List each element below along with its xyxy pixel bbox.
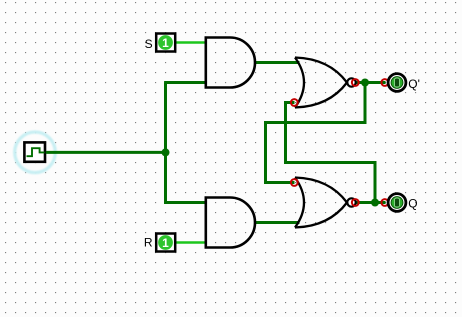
wire R pin to AND2 lower input (value 1) [176,241,207,243]
error marker NOR1 lower input [291,99,298,106]
svg-text:R: R [144,236,153,250]
error marker pin Q' input [381,79,388,86]
wire junction down to AND2 upper input level [164,152,167,204]
svg-text:Q': Q' [408,77,420,91]
wire feedback NOR2 output to NOR1 lower input [286,103,376,203]
error marker NOR1 output [352,79,359,86]
AND gate U1 (top) [206,38,255,88]
wire AND2 output to NOR2 lower input [254,221,300,224]
svg-text:1: 1 [162,36,169,50]
clock CLK halo [15,132,56,173]
clock CLK [24,142,45,161]
wire NOR2 output to pin Q [355,201,386,204]
NOR gate U3 (top) [295,58,356,108]
wire to AND1 lower input [164,81,206,84]
error marker pin Q input [381,199,388,206]
input pin R [156,234,175,252]
wire junction up to AND1 lower input level [164,83,167,153]
wire to AND2 upper input [164,201,206,204]
node clock branch junction [162,148,170,156]
NOR gate U4 (bottom) [295,178,356,228]
error marker NOR2 output [352,199,359,206]
wire feedback NOR1 output to NOR2 upper input [266,83,366,183]
svg-text:S: S [145,37,153,51]
output pin Q' [388,74,406,92]
wire AND1 output to NOR1 upper input [254,61,300,64]
node NOR2 output junction [371,199,379,207]
svg-text:1: 1 [162,236,169,250]
error marker NOR2 upper input [291,179,298,186]
wire S pin to AND1 upper input (value 1) [176,41,207,43]
svg-text:Q: Q [408,197,417,211]
input pin S [156,34,175,52]
AND gate U2 (bottom) [206,198,255,248]
wire clock output to junction [46,151,166,154]
node NOR1 output junction [361,79,369,87]
wire NOR1 output to pin Q' [355,81,386,84]
output pin Q [388,194,406,212]
